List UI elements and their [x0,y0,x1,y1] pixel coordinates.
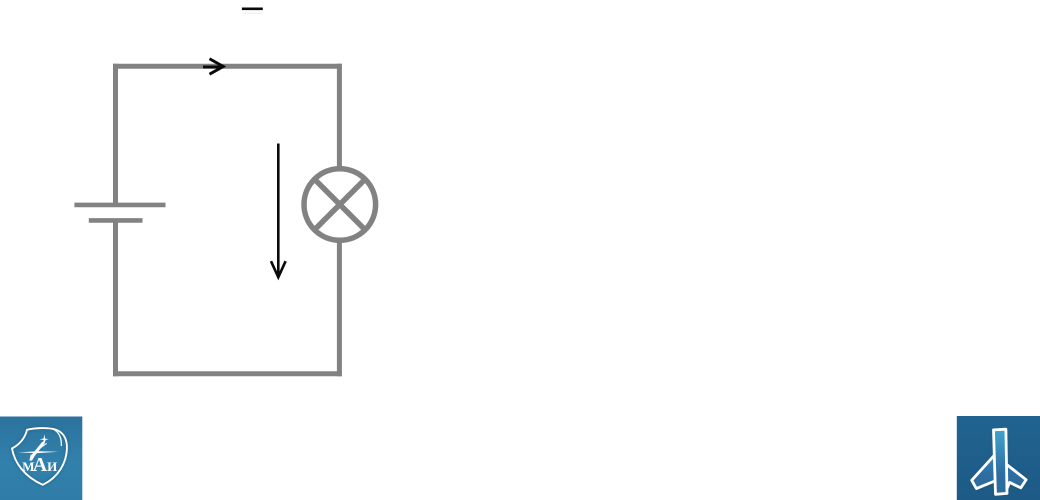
logomark left wing [972,453,996,488]
wire: right lower (from lamp) [337,240,342,377]
lamp HL1 (circle with X) [304,169,376,241]
emblem text МАИ [22,454,57,476]
wire: left upper (battery top terminal) [113,64,118,205]
svg-text:И: И [47,459,57,474]
logomark fuselage [994,429,1008,494]
emblem star [40,434,49,444]
MAI plane logomark (bottom-right blue square) [957,416,1040,500]
emblem canard stroke [39,443,47,449]
minus label fragment (clipped text at top) [242,8,263,14]
emblem tail fin [29,454,33,460]
wire: left lower (battery bottom terminal) [113,220,118,376]
current direction arrow (vertical, pointing down) [271,144,286,278]
wire: bottom horizontal [113,371,342,376]
logomark right wing [1004,462,1026,488]
emblem wing line [18,451,58,453]
MAI emblem logo (bottom-left blue square) [0,417,82,500]
battery B1 [74,205,165,221]
wire: top horizontal [113,64,342,69]
svg-text:А: А [33,454,48,476]
emblem shadow [12,428,67,485]
MAI shield outline [12,428,67,485]
wire: right upper (to lamp) [337,64,342,170]
logomark shadow [972,429,1026,494]
emblem fuselage [29,440,45,461]
current arrow I (top, pointing right) [203,59,223,74]
shield top-right curl [53,429,61,446]
